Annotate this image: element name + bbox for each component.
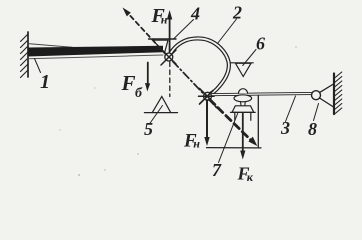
svg-text:8: 8 xyxy=(308,119,317,139)
svg-text:7: 7 xyxy=(212,160,222,180)
svg-text:н: н xyxy=(193,137,200,151)
svg-text:F: F xyxy=(121,71,136,95)
svg-text:5: 5 xyxy=(144,119,153,139)
svg-text:б: б xyxy=(135,86,143,101)
svg-text:6: 6 xyxy=(256,34,265,54)
svg-text:1: 1 xyxy=(40,71,50,93)
svg-text:к: к xyxy=(247,170,254,182)
svg-text:н: н xyxy=(161,13,168,27)
svg-text:4: 4 xyxy=(190,4,200,24)
svg-text:3: 3 xyxy=(280,118,290,138)
svg-text:2: 2 xyxy=(232,3,242,23)
